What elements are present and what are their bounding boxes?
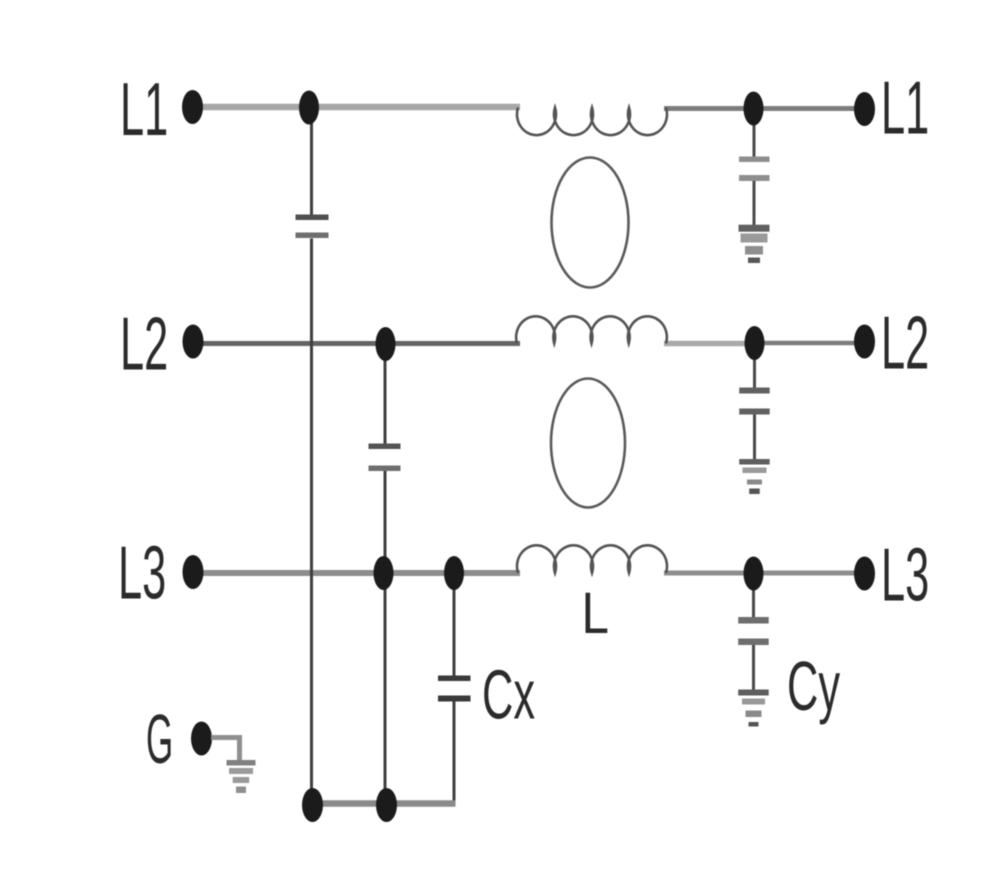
svg-text:L: L — [582, 581, 609, 646]
junction L2/bus B — [376, 327, 396, 361]
ground symbol (Cy2) — [739, 459, 770, 494]
svg-text:L1: L1 — [881, 66, 929, 149]
wire Cx branch vertical lower — [453, 702, 456, 804]
wire bus A vertical lower — [310, 239, 313, 804]
svg-text:L1: L1 — [120, 68, 168, 151]
terminal L3 input — [183, 555, 204, 589]
wire bottom bus — [312, 800, 456, 807]
wire L2 coil-to-junction segment — [664, 341, 754, 347]
wire L1 input segment — [192, 104, 520, 111]
capacitor CB (L2 to bus) — [369, 444, 401, 472]
inductor L (phase L1 winding) — [517, 108, 667, 136]
svg-text:Cy: Cy — [787, 647, 840, 725]
svg-text:L2: L2 — [120, 302, 168, 385]
terminal L2 output — [854, 325, 875, 359]
core ellipse (choke core between L1 and L2) — [552, 158, 629, 288]
svg-text:L3: L3 — [881, 533, 929, 616]
junction L1/bus A — [299, 91, 319, 125]
junction L3/Cx — [444, 556, 464, 590]
svg-text:Cx: Cx — [482, 656, 535, 734]
capacitor Cx — [438, 676, 471, 702]
svg-text:L2: L2 — [881, 301, 929, 384]
capacitor Cy3 (L3 to ground) — [738, 576, 769, 690]
wire Cx branch vertical upper — [453, 573, 456, 676]
terminal L2 input — [183, 325, 204, 359]
capacitor Cy1 (L1 to ground) — [739, 111, 770, 226]
wire L1 output segment — [664, 106, 866, 111]
wire bus B vertical upper — [384, 344, 387, 444]
junction L3/Cy3 — [744, 557, 764, 591]
inductor L (phase L2 winding) — [516, 316, 667, 343]
svg-text:G: G — [146, 700, 173, 778]
junction L2/Cy2 — [745, 326, 765, 360]
terminal G — [191, 722, 212, 756]
wire G to ground — [211, 738, 240, 761]
wire L2 output segment — [754, 341, 866, 346]
ground symbol (G terminal) — [227, 760, 256, 793]
terminal L1 input — [182, 90, 203, 124]
ground symbol (Cy3) — [738, 690, 769, 727]
terminal L1 output — [854, 92, 875, 126]
terminal L3 output — [854, 557, 875, 591]
junction L3/bus B — [374, 556, 394, 590]
junction bottom bus / bus A — [302, 788, 323, 822]
wire L3 output segment — [664, 571, 866, 576]
inductor L (phase L3 winding) — [517, 545, 667, 573]
capacitor CA (L1 to bus) — [296, 215, 329, 239]
junction bottom bus / bus B — [376, 788, 397, 822]
wire bus A vertical upper — [310, 107, 313, 215]
core ellipse (choke core between L2 and L3) — [551, 379, 625, 508]
capacitor Cy2 (L2 to ground) — [739, 346, 770, 460]
wire L3 input segment — [193, 570, 520, 576]
wire L2 input segment — [193, 341, 520, 346]
svg-text:L3: L3 — [118, 531, 166, 614]
ground symbol (Cy1) — [739, 225, 770, 263]
wire bus B vertical lower — [384, 471, 387, 804]
junction L1/Cy1 — [744, 92, 764, 126]
